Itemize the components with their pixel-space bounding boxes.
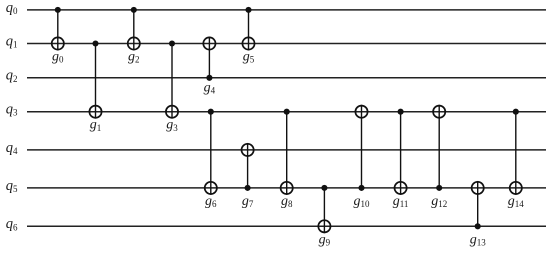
- control dot g3 on q1: [169, 40, 175, 46]
- wire g5 vertical connector q0-q1: [248, 10, 250, 51]
- wire g13 vertical connector q6-q5: [477, 181, 479, 226]
- svg-text:g6: g6: [205, 194, 217, 209]
- target XOR g4 on q1: [203, 37, 215, 49]
- svg-text:g8: g8: [281, 194, 293, 209]
- wire g10 vertical connector q5-q3: [361, 105, 363, 188]
- svg-text:q2: q2: [6, 68, 18, 84]
- svg-text:q1: q1: [6, 33, 18, 49]
- control dot g10 on q5: [358, 185, 364, 191]
- target XOR g0 on q1: [52, 37, 64, 49]
- wire g3 vertical connector q1-q3: [171, 44, 173, 119]
- CNOT gate g4: [203, 37, 215, 96]
- wire g2 vertical connector q0-q1: [133, 10, 135, 51]
- target XOR g14 on q5: [510, 182, 522, 194]
- wire q3: [27, 111, 546, 113]
- CNOT gate g3: [166, 40, 178, 132]
- wire q0: [27, 9, 546, 11]
- target XOR g3 on q3: [166, 106, 178, 118]
- svg-text:g11: g11: [393, 194, 409, 209]
- svg-text:q4: q4: [6, 140, 18, 156]
- target XOR g7 on q4: [242, 144, 254, 156]
- CNOT gate g2: [128, 7, 140, 65]
- target XOR g12 on q3: [433, 106, 445, 118]
- CNOT gate g7: [242, 143, 254, 209]
- CNOT gate g6: [205, 109, 217, 209]
- svg-text:g5: g5: [243, 50, 255, 65]
- svg-text:g3: g3: [166, 118, 178, 133]
- wire g9 vertical connector q5-q6: [323, 188, 325, 233]
- CNOT gate g0: [52, 7, 64, 65]
- svg-text:q5: q5: [6, 178, 18, 194]
- wire g14 vertical connector q3-q5: [515, 112, 517, 195]
- svg-text:g14: g14: [508, 194, 525, 209]
- svg-text:g12: g12: [431, 194, 447, 209]
- svg-text:q6: q6: [6, 216, 18, 232]
- control dot g4 on q2: [206, 75, 212, 81]
- target XOR g13 on q5: [472, 182, 484, 194]
- CNOT gate g11: [393, 109, 409, 209]
- wire g8 vertical connector q3-q5: [286, 112, 288, 195]
- wire g1 vertical connector q1-q3: [95, 44, 97, 119]
- wire q6: [27, 225, 546, 227]
- wire q4: [27, 149, 546, 151]
- svg-text:q3: q3: [6, 102, 18, 118]
- svg-text:q0: q0: [6, 0, 18, 16]
- wire q2: [27, 77, 546, 79]
- target XOR g10 on q3: [355, 106, 367, 118]
- CNOT gate g5: [242, 7, 254, 65]
- svg-text:g7: g7: [242, 194, 254, 209]
- wire q5: [27, 187, 546, 189]
- wire g11 vertical connector q3-q5: [400, 112, 402, 195]
- CNOT gate g10: [354, 105, 371, 209]
- control dot g7 on q5: [245, 185, 251, 191]
- control dot g2 on q0: [131, 7, 137, 13]
- CNOT gate g8: [281, 109, 293, 209]
- wire g0 vertical connector q0-q1: [57, 10, 59, 51]
- control dot g12 on q5: [436, 185, 442, 191]
- control dot g0 on q0: [55, 7, 61, 13]
- control dot g14 on q3: [513, 109, 519, 115]
- svg-text:g0: g0: [52, 50, 64, 65]
- svg-text:g2: g2: [128, 50, 140, 65]
- wire q1: [27, 43, 546, 45]
- target XOR g6 on q5: [205, 182, 217, 194]
- svg-text:g10: g10: [354, 194, 371, 209]
- control dot g6 on q3: [208, 109, 214, 115]
- svg-text:g1: g1: [90, 118, 102, 133]
- wire g12 vertical connector q5-q3: [438, 105, 440, 188]
- control dot g1 on q1: [92, 40, 98, 46]
- control dot g11 on q3: [398, 109, 404, 115]
- target XOR g11 on q5: [395, 182, 407, 194]
- wire g6 vertical connector q3-q5: [210, 112, 212, 195]
- CNOT gate g1: [89, 40, 101, 132]
- CNOT gate g13: [470, 181, 487, 247]
- target XOR g2 on q1: [128, 37, 140, 49]
- CNOT gate g14: [508, 109, 525, 209]
- control dot g9 on q5: [321, 185, 327, 191]
- control dot g13 on q6: [475, 223, 481, 229]
- target XOR g5 on q1: [242, 37, 254, 49]
- CNOT gate g9: [318, 185, 330, 248]
- svg-text:g4: g4: [204, 81, 216, 96]
- target XOR g9 on q6: [318, 220, 330, 232]
- control dot g8 on q3: [284, 109, 290, 115]
- wire g7 vertical connector q5-q4: [247, 143, 249, 188]
- target XOR g8 on q5: [281, 182, 293, 194]
- svg-text:g13: g13: [470, 232, 487, 247]
- target XOR g1 on q3: [89, 106, 101, 118]
- svg-text:g9: g9: [319, 232, 331, 247]
- control dot g5 on q0: [245, 7, 251, 13]
- wire g4 vertical connector q2-q1: [208, 37, 210, 78]
- CNOT gate g12: [431, 105, 447, 209]
